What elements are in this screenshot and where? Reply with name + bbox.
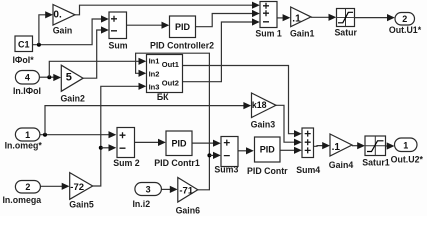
- wire: In.omega oval to Gain5: [40, 183, 69, 190]
- node: junction on In.IFoI wire: [47, 75, 51, 79]
- svg-text:Gain2: Gain2: [60, 94, 85, 104]
- svg-text:Out.U1*: Out.U1*: [389, 25, 422, 35]
- svg-text:3: 3: [146, 184, 151, 194]
- svg-text:Gain5: Gain5: [69, 200, 94, 210]
- wire: Sum output to PID Controller2: [127, 22, 170, 29]
- wire: branch from C1 node up to Gain input: [39, 11, 53, 45]
- svg-text:Out2: Out2: [162, 79, 179, 88]
- node: junction on C1 wire: [37, 43, 41, 47]
- svg-text:PID: PID: [260, 145, 276, 155]
- gain Gain2: [60, 65, 85, 103]
- svg-text:In.omega: In.omega: [2, 195, 41, 205]
- wire: branch right into Sum3 minus: [209, 152, 220, 159]
- svg-text:Gain: Gain: [53, 26, 73, 36]
- PID Contr1: [154, 131, 200, 168]
- wire: Gain1 output to Satur: [311, 14, 336, 21]
- svg-text:Gain6: Gain6: [176, 206, 201, 216]
- gain Gain1: [290, 7, 315, 39]
- svg-text:Gain1: Gain1: [290, 29, 315, 39]
- wire: In.i2 oval to Gain6: [162, 186, 178, 193]
- saturation Satur1: [362, 136, 389, 168]
- gain Gain: [53, 5, 75, 36]
- svg-text:PID: PID: [175, 22, 191, 32]
- svg-text:Sum 2: Sum 2: [113, 158, 140, 168]
- svg-text:1: 1: [403, 140, 408, 150]
- svg-text:4: 4: [25, 73, 30, 83]
- svg-text:IФоI*: IФоI*: [12, 55, 34, 65]
- svg-text:1: 1: [25, 130, 30, 140]
- wire: In.IFoI oval to Gain2: [40, 74, 62, 81]
- wire: Gain2 output up to Sum minus input: [83, 26, 109, 78]
- PID Contr: [247, 137, 288, 176]
- wire: branch up to Gain3 k18 input: [45, 102, 251, 135]
- gain Gain5: [69, 173, 94, 210]
- svg-text:k18: k18: [252, 100, 267, 110]
- wire: BK Out1 right and down to Sum4 input 1: [183, 66, 302, 138]
- sum Sum4: [296, 128, 320, 175]
- PID Controller2: [150, 16, 214, 51]
- svg-text:2: 2: [402, 14, 407, 24]
- svg-text:In1: In1: [149, 56, 160, 65]
- wire: Gain3 output down to Sum4 input 2: [276, 105, 302, 146]
- sum Sum: [108, 12, 127, 51]
- saturation Satur: [334, 9, 357, 38]
- wire: Sum4 output to Gain4: [314, 142, 331, 149]
- svg-text:Out1: Out1: [162, 60, 179, 69]
- svg-text:Gain3: Gain3: [251, 120, 276, 130]
- wire: PID Controller2 output to Sum1 input 2: [196, 10, 260, 27]
- svg-text:-71: -71: [179, 185, 193, 196]
- wire: Satur output to Out.U1: [355, 14, 395, 21]
- svg-text:Satur: Satur: [334, 28, 357, 38]
- wire: Gain output up and right to Sum1 input 1: [75, 2, 260, 15]
- svg-text:PID Contr: PID Contr: [247, 166, 288, 176]
- svg-text:.1: .1: [292, 14, 301, 25]
- wire: PID Contr output to Sum4 input 3: [281, 147, 302, 154]
- gain Gain6: [176, 178, 201, 216]
- node: junction on In.omeg wire: [43, 133, 47, 137]
- wire: C1 output to Sum plus input: [33, 15, 109, 44]
- svg-text:0.: 0.: [53, 9, 62, 20]
- wire: PID Contr1 output to Sum3 plus: [192, 140, 221, 147]
- subsystem BK: [147, 55, 183, 103]
- sum Sum3: [214, 137, 238, 175]
- inport In.IFoI: [13, 71, 41, 97]
- svg-text:Out.U2*: Out.U2*: [391, 155, 424, 165]
- svg-text:Sum: Sum: [108, 41, 127, 51]
- node: junction Gain5 net to Sum2 minus: [99, 146, 103, 150]
- svg-text:In.omeg*: In.omeg*: [5, 141, 43, 151]
- svg-text:C1: C1: [18, 39, 30, 49]
- svg-text:.1: .1: [332, 142, 341, 153]
- node: junction Gain6 net to Sum3 minus: [207, 153, 211, 157]
- svg-text:In3: In3: [149, 83, 160, 92]
- inport In.omeg*: [5, 128, 43, 151]
- wire: In.omeg oval to Sum2 plus: [40, 131, 116, 138]
- wire: BK Out2 up to Sum1 minus input: [183, 18, 260, 81]
- wire: Satur1 output to Out.U2: [386, 142, 395, 149]
- svg-text:Sum3: Sum3: [214, 165, 238, 175]
- wire: Sum2 output to PID Contr1: [135, 139, 166, 146]
- svg-text:PID Controller2: PID Controller2: [150, 41, 214, 51]
- outport Out.U1*: [389, 13, 422, 36]
- svg-text:In.i2: In.i2: [132, 199, 150, 209]
- svg-text:2: 2: [25, 182, 30, 192]
- svg-text:БК: БК: [157, 92, 169, 102]
- svg-text:5: 5: [66, 72, 72, 84]
- outport Out.U2*: [391, 138, 424, 165]
- svg-text:PID Contr1: PID Contr1: [154, 158, 200, 168]
- wire: Sum3 output to PID Contr: [238, 147, 254, 154]
- svg-text:Sum4: Sum4: [296, 165, 320, 175]
- gain Gain4: [329, 134, 354, 170]
- wire: Gain6 output up, to Sum3 minus and BK In2: [136, 53, 210, 190]
- svg-text:PID: PID: [171, 139, 187, 149]
- sum Sum1: [255, 2, 282, 39]
- svg-text:Sum 1: Sum 1: [255, 29, 282, 39]
- wire: Gain5 output up, to Sum2 minus and BK In3: [93, 83, 147, 186]
- inport In.i2: [132, 183, 161, 210]
- wire: Sum1 output to Gain1: [277, 14, 290, 21]
- svg-text:In.IФоI: In.IФоI: [13, 86, 41, 96]
- svg-text:In2: In2: [149, 70, 160, 79]
- inport In.omega: [2, 181, 41, 206]
- gain Gain3: [251, 93, 276, 130]
- wire: branch up to BK In1: [49, 58, 146, 77]
- wire: branch right into Sum2 minus: [101, 144, 117, 151]
- svg-text:-72: -72: [70, 182, 84, 193]
- wire: Gain4 output to Satur1: [352, 142, 365, 149]
- constant C1: [15, 36, 33, 52]
- svg-text:Gain4: Gain4: [329, 160, 354, 170]
- svg-text:Satur1: Satur1: [362, 158, 389, 168]
- sum Sum2: [113, 128, 140, 169]
